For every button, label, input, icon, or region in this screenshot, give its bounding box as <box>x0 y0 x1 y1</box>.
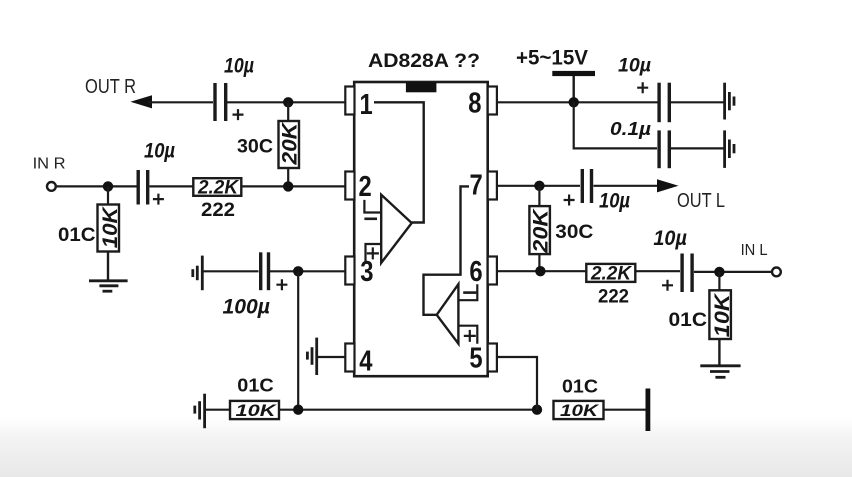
svg-text:OUT L: OUT L <box>677 190 725 212</box>
resistor 10K (IN R) box <box>98 205 120 252</box>
svg-text:222: 222 <box>201 200 235 221</box>
junction node bottom right <box>532 405 542 415</box>
resistor 20K (left channel feedback) box <box>529 206 550 254</box>
capacitor 10u (OUT R) <box>215 83 226 121</box>
svg-text:222: 222 <box>598 287 629 308</box>
svg-text:10µ: 10µ <box>653 227 687 250</box>
wire 100u to pin 3 <box>270 270 346 272</box>
op-amp A plus sign <box>367 247 379 259</box>
svg-text:8: 8 <box>468 86 481 119</box>
svg-text:20K: 20K <box>278 121 301 166</box>
wire 10u to ground (supply) <box>671 101 724 103</box>
svg-text:20K: 20K <box>529 208 552 254</box>
wire cap to OUT L arrow <box>594 185 660 187</box>
op-amp B plus sign <box>464 330 476 342</box>
svg-text:1: 1 <box>360 88 373 121</box>
svg-text:10µ: 10µ <box>618 56 651 77</box>
svg-text:AD828A ??: AD828A ?? <box>368 50 480 72</box>
svg-text:10K: 10K <box>99 205 122 248</box>
wire 2.2K to cap (IN L) <box>635 270 680 272</box>
op-amp B minus sign <box>463 291 476 294</box>
wire capacitor to pin 1 <box>227 101 346 103</box>
pin 8 tab <box>488 87 497 115</box>
op-amp A triangle (pins 1,2,3) <box>381 195 412 263</box>
OUT L arrowhead <box>657 179 679 192</box>
junction node pin1/feedback <box>283 97 293 107</box>
capacitor 10u (supply) <box>659 83 669 123</box>
wire 10K to ground <box>107 252 109 282</box>
U1 pin-1 orientation notch bar <box>406 82 437 92</box>
ground (supply 10u, sideways right) <box>725 83 734 120</box>
wire IN R terminal to node <box>56 185 137 187</box>
svg-text:2.2K: 2.2K <box>590 264 632 285</box>
resistor 10K (bottom left) box <box>230 401 279 419</box>
svg-text:2: 2 <box>359 170 372 203</box>
junction node pin 7 <box>534 181 544 191</box>
capacitor 100u plus sign <box>276 279 287 290</box>
pin 3 tab <box>345 257 354 285</box>
capacitor 100u <box>261 252 269 290</box>
junction node pin 2 <box>283 181 293 191</box>
junction node pin 3 <box>293 266 303 276</box>
wire 10K to terminal stub <box>604 409 647 411</box>
capacitor 10u (OUT R) plus sign <box>233 109 244 120</box>
svg-text:10K: 10K <box>711 292 734 337</box>
wire pin 5 to bottom rail <box>497 357 537 410</box>
terminal stub bar (bottom right) <box>646 389 651 432</box>
capacitor 10u (IN R) plus sign <box>153 194 164 205</box>
wire capacitor to 2.2K <box>150 185 194 187</box>
op-amp A non-inverting input wire <box>366 244 382 262</box>
junction node pin 6 <box>535 266 545 276</box>
op-amp B inverting input wire <box>458 284 477 300</box>
svg-text:01C: 01C <box>237 375 273 396</box>
svg-text:01C: 01C <box>58 225 96 246</box>
svg-text:2.2K: 2.2K <box>197 178 239 199</box>
resistor 20K (right channel feedback) box <box>279 121 300 168</box>
svg-text:10K: 10K <box>236 402 277 420</box>
junction node bottom left <box>293 405 303 415</box>
pin 7 tab <box>488 172 497 200</box>
svg-text:3: 3 <box>360 255 373 288</box>
wire ground to 10K (bottom left) <box>205 409 230 411</box>
capacitor 10u (OUT L) plus sign <box>564 195 575 206</box>
svg-text:0.1µ: 0.1µ <box>610 118 651 139</box>
op-amp B non-inverting input wire <box>458 326 477 344</box>
op-amp U1 AD828A body <box>354 82 488 376</box>
svg-text:10K: 10K <box>560 402 599 420</box>
svg-text:10µ: 10µ <box>144 139 175 162</box>
wire pin 6 to 2.2K <box>497 270 587 272</box>
IN L terminal circle <box>772 268 781 277</box>
op-amp A output wire to pin 1 <box>374 102 424 222</box>
wire ground to 100u cap <box>203 270 259 272</box>
pin 1 tab <box>345 87 354 115</box>
wire node down to 20K (left channel) <box>538 186 540 207</box>
wire bottom rail <box>279 409 537 411</box>
wire V+ node down to 0.1u branch <box>574 102 657 148</box>
svg-text:10µ: 10µ <box>599 190 630 213</box>
wire 2.2K to pin 2 <box>241 185 346 187</box>
svg-text:6: 6 <box>469 255 482 288</box>
wire 10K to ground (IN L) <box>718 339 720 366</box>
svg-text:10µ: 10µ <box>224 55 254 78</box>
OUT R arrowhead <box>130 95 152 108</box>
capacitor 0.1u <box>659 130 669 168</box>
svg-text:7: 7 <box>470 168 483 201</box>
resistor 10K (bottom right) box <box>554 401 604 419</box>
svg-text:100µ: 100µ <box>223 296 271 319</box>
op-amp B output wire to pin 7 <box>424 186 470 314</box>
capacitor 10u (OUT L) <box>582 169 591 203</box>
power supply bar <box>552 71 595 76</box>
ground (pin 4, sideways) <box>307 338 316 375</box>
capacitor 10u (IN L) plus sign <box>662 280 673 291</box>
svg-text:30C: 30C <box>237 137 273 158</box>
svg-text:IN L: IN L <box>741 242 768 259</box>
wire pin 8 to supply node <box>497 101 659 103</box>
ground (IN R) <box>89 281 128 291</box>
svg-text:+5~15V: +5~15V <box>516 46 589 70</box>
svg-text:IN R: IN R <box>33 155 66 172</box>
svg-text:OUT R: OUT R <box>85 76 136 98</box>
wire pin 7 to OUT L cap <box>497 185 580 187</box>
capacitor 10u (IN L) <box>682 254 692 293</box>
wire 20K bottom to pin 6 node <box>538 254 540 271</box>
wire junction down to 20K resistor <box>287 102 289 122</box>
ground (100u cap, sideways) <box>193 256 203 291</box>
wire ground to pin 4 <box>318 356 347 358</box>
pin 6 tab <box>488 257 497 285</box>
wire 0.1u to ground <box>671 147 724 149</box>
resistor 2.2K (IN L) box <box>586 264 635 282</box>
junction node V+ <box>569 97 579 107</box>
pin 2 tab <box>345 172 354 200</box>
ground (IN L) <box>700 366 740 378</box>
IN R terminal circle <box>47 182 56 191</box>
wire OUT R arrow to capacitor <box>148 101 213 103</box>
svg-text:5: 5 <box>469 341 482 374</box>
ground (0.1u, sideways right) <box>725 130 734 168</box>
wire supply bar to node <box>573 76 575 102</box>
op-amp A inverting input wire <box>364 200 381 213</box>
svg-text:01C: 01C <box>562 376 598 397</box>
junction node IN R <box>103 181 113 191</box>
pin 4 tab <box>345 344 354 372</box>
junction node IN L <box>714 267 724 277</box>
op-amp B triangle (pins 5,6,7) <box>437 284 459 344</box>
wire cap to IN L terminal <box>694 271 772 273</box>
svg-text:30C: 30C <box>555 222 593 243</box>
ground (bottom left, sideways) <box>195 394 205 429</box>
capacitor 10u (IN R) <box>138 170 148 205</box>
wire node down to 10K (IN L) <box>718 272 720 291</box>
capacitor 10u (supply) plus sign <box>637 82 648 93</box>
wire node down to 10K <box>107 186 109 205</box>
resistor 10K (IN L) box <box>709 290 731 339</box>
resistor 2.2K (IN R) box <box>193 178 241 196</box>
op-amp A minus sign <box>364 218 377 221</box>
svg-text:4: 4 <box>359 344 372 377</box>
pin 5 tab <box>488 344 497 372</box>
wire pin3 node down to bottom rail <box>297 271 299 409</box>
svg-text:01C: 01C <box>669 310 708 331</box>
wire 20K bottom to pin2 node <box>287 168 289 186</box>
